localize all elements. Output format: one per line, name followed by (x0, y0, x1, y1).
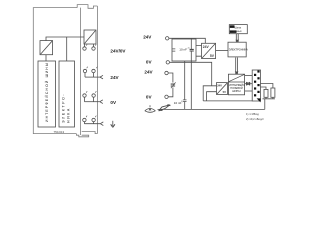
svg-text:1) 1 МБод: 1) 1 МБод (246, 112, 259, 116)
wire to varistor (168, 73, 173, 83)
svg-text:ШИНЫ: ШИНЫ (232, 90, 241, 93)
dc/dc converter U3 (24V/5V) (202, 43, 216, 58)
svg-text:5V: 5V (223, 90, 226, 94)
power jumper contacts row 3 (0V) (83, 91, 103, 103)
svg-text:2) 19,2 кБод/с: 2) 19,2 кБод/с (246, 117, 264, 121)
wire: U4 input A (203, 86, 216, 101)
terminal T1 (166, 37, 169, 40)
clamp symbol (159, 105, 171, 111)
data bus link (lower) (235, 58, 239, 75)
wire: branch to electronics box (66, 37, 68, 61)
wire: 24V rail (169, 38, 205, 43)
terminal T2 (166, 61, 169, 64)
module M2 outline (supply strip) (96, 6, 98, 134)
wires filter to U3 (196, 46, 202, 57)
earth arrow symbol (strip) (111, 121, 115, 128)
svg-text:данных: данных (233, 30, 242, 33)
wire: U4 input B (207, 92, 217, 101)
box: fieldbus interface (228, 74, 245, 95)
capacitor C1 wire to shield rail (184, 61, 186, 100)
terminal T3 (165, 71, 168, 74)
svg-text:ЭЛЕКТРОНИКА: ЭЛЕКТРОНИКА (229, 48, 248, 52)
shield rail (158, 108, 265, 110)
wire: resistor bottoms (263, 97, 275, 99)
svg-text:750-613: 750-613 (54, 130, 65, 134)
module M2 foot (82, 132, 98, 134)
power jumper contacts row 2 (24V) (83, 67, 103, 79)
svg-text:0V: 0V (110, 100, 117, 105)
svg-text:24V: 24V (110, 75, 119, 80)
wire: U1 to interface box (45, 55, 47, 61)
module M1 foot (76, 134, 88, 137)
power jumper contacts row 1 (83, 44, 96, 50)
varistor RV1 (171, 82, 176, 88)
svg-text:0V: 0V (146, 60, 153, 65)
box: electronics (right) (228, 42, 248, 57)
wire U3 to electronics (216, 50, 228, 52)
svg-text:0V: 0V (146, 95, 153, 100)
wire to resistor R2 (261, 84, 273, 89)
svg-text:24V: 24V (217, 84, 222, 88)
svg-text:24V: 24V (143, 34, 152, 39)
wire: bottom return (203, 100, 252, 102)
power jumper contacts row 4 (earth) (83, 116, 104, 126)
svg-text:10 nF: 10 nF (179, 47, 187, 51)
svg-text:ИНТЕРФЕЙСНОЙ ШИНЫ: ИНТЕРФЕЙСНОЙ ШИНЫ (45, 62, 49, 122)
module M1 top latch (77, 5, 97, 9)
svg-text:ЭЛЕКТРО-: ЭЛЕКТРО- (61, 93, 65, 123)
module M1 outline (bus coupler) (33, 8, 80, 135)
wire from varistor (168, 88, 173, 97)
resistor R2 (271, 88, 275, 97)
wire: shield riser (264, 99, 266, 110)
data contacts connector (252, 70, 260, 102)
svg-text:24V/0V: 24V/0V (110, 48, 126, 53)
isolation symbol + wire (245, 82, 253, 85)
wire: 5V supply from U1 to strip (46, 37, 84, 41)
box: electronics (59, 61, 75, 127)
dc/dc converter U1 (inside coupler) (40, 41, 53, 55)
wire: interface to connector (lower) (245, 90, 253, 92)
dc/dc converter U4 (fieldbus, 24V/5V) (217, 83, 228, 95)
wire: interface to connector (top) (245, 74, 253, 76)
svg-text:24V: 24V (203, 45, 210, 49)
svg-text:24V: 24V (144, 70, 153, 75)
resistor R1 (264, 89, 268, 97)
box: data bus (229, 25, 247, 34)
svg-text:НИКА: НИКА (67, 107, 71, 123)
wire: 0V rail (170, 62, 212, 86)
wire to resistor R1 (261, 87, 267, 89)
capacitor C2 wire (24V to shield rail) (190, 38, 192, 109)
terminal T4 (165, 95, 168, 98)
box: bus interface electronics (38, 61, 56, 127)
capacitor C1 plates (183, 100, 187, 102)
filter box (10 nF) (172, 39, 196, 61)
dc/dc converter U2 (supply strip) (84, 30, 96, 44)
rail contact symbol (145, 105, 156, 112)
data bus link (upper) (235, 34, 239, 43)
